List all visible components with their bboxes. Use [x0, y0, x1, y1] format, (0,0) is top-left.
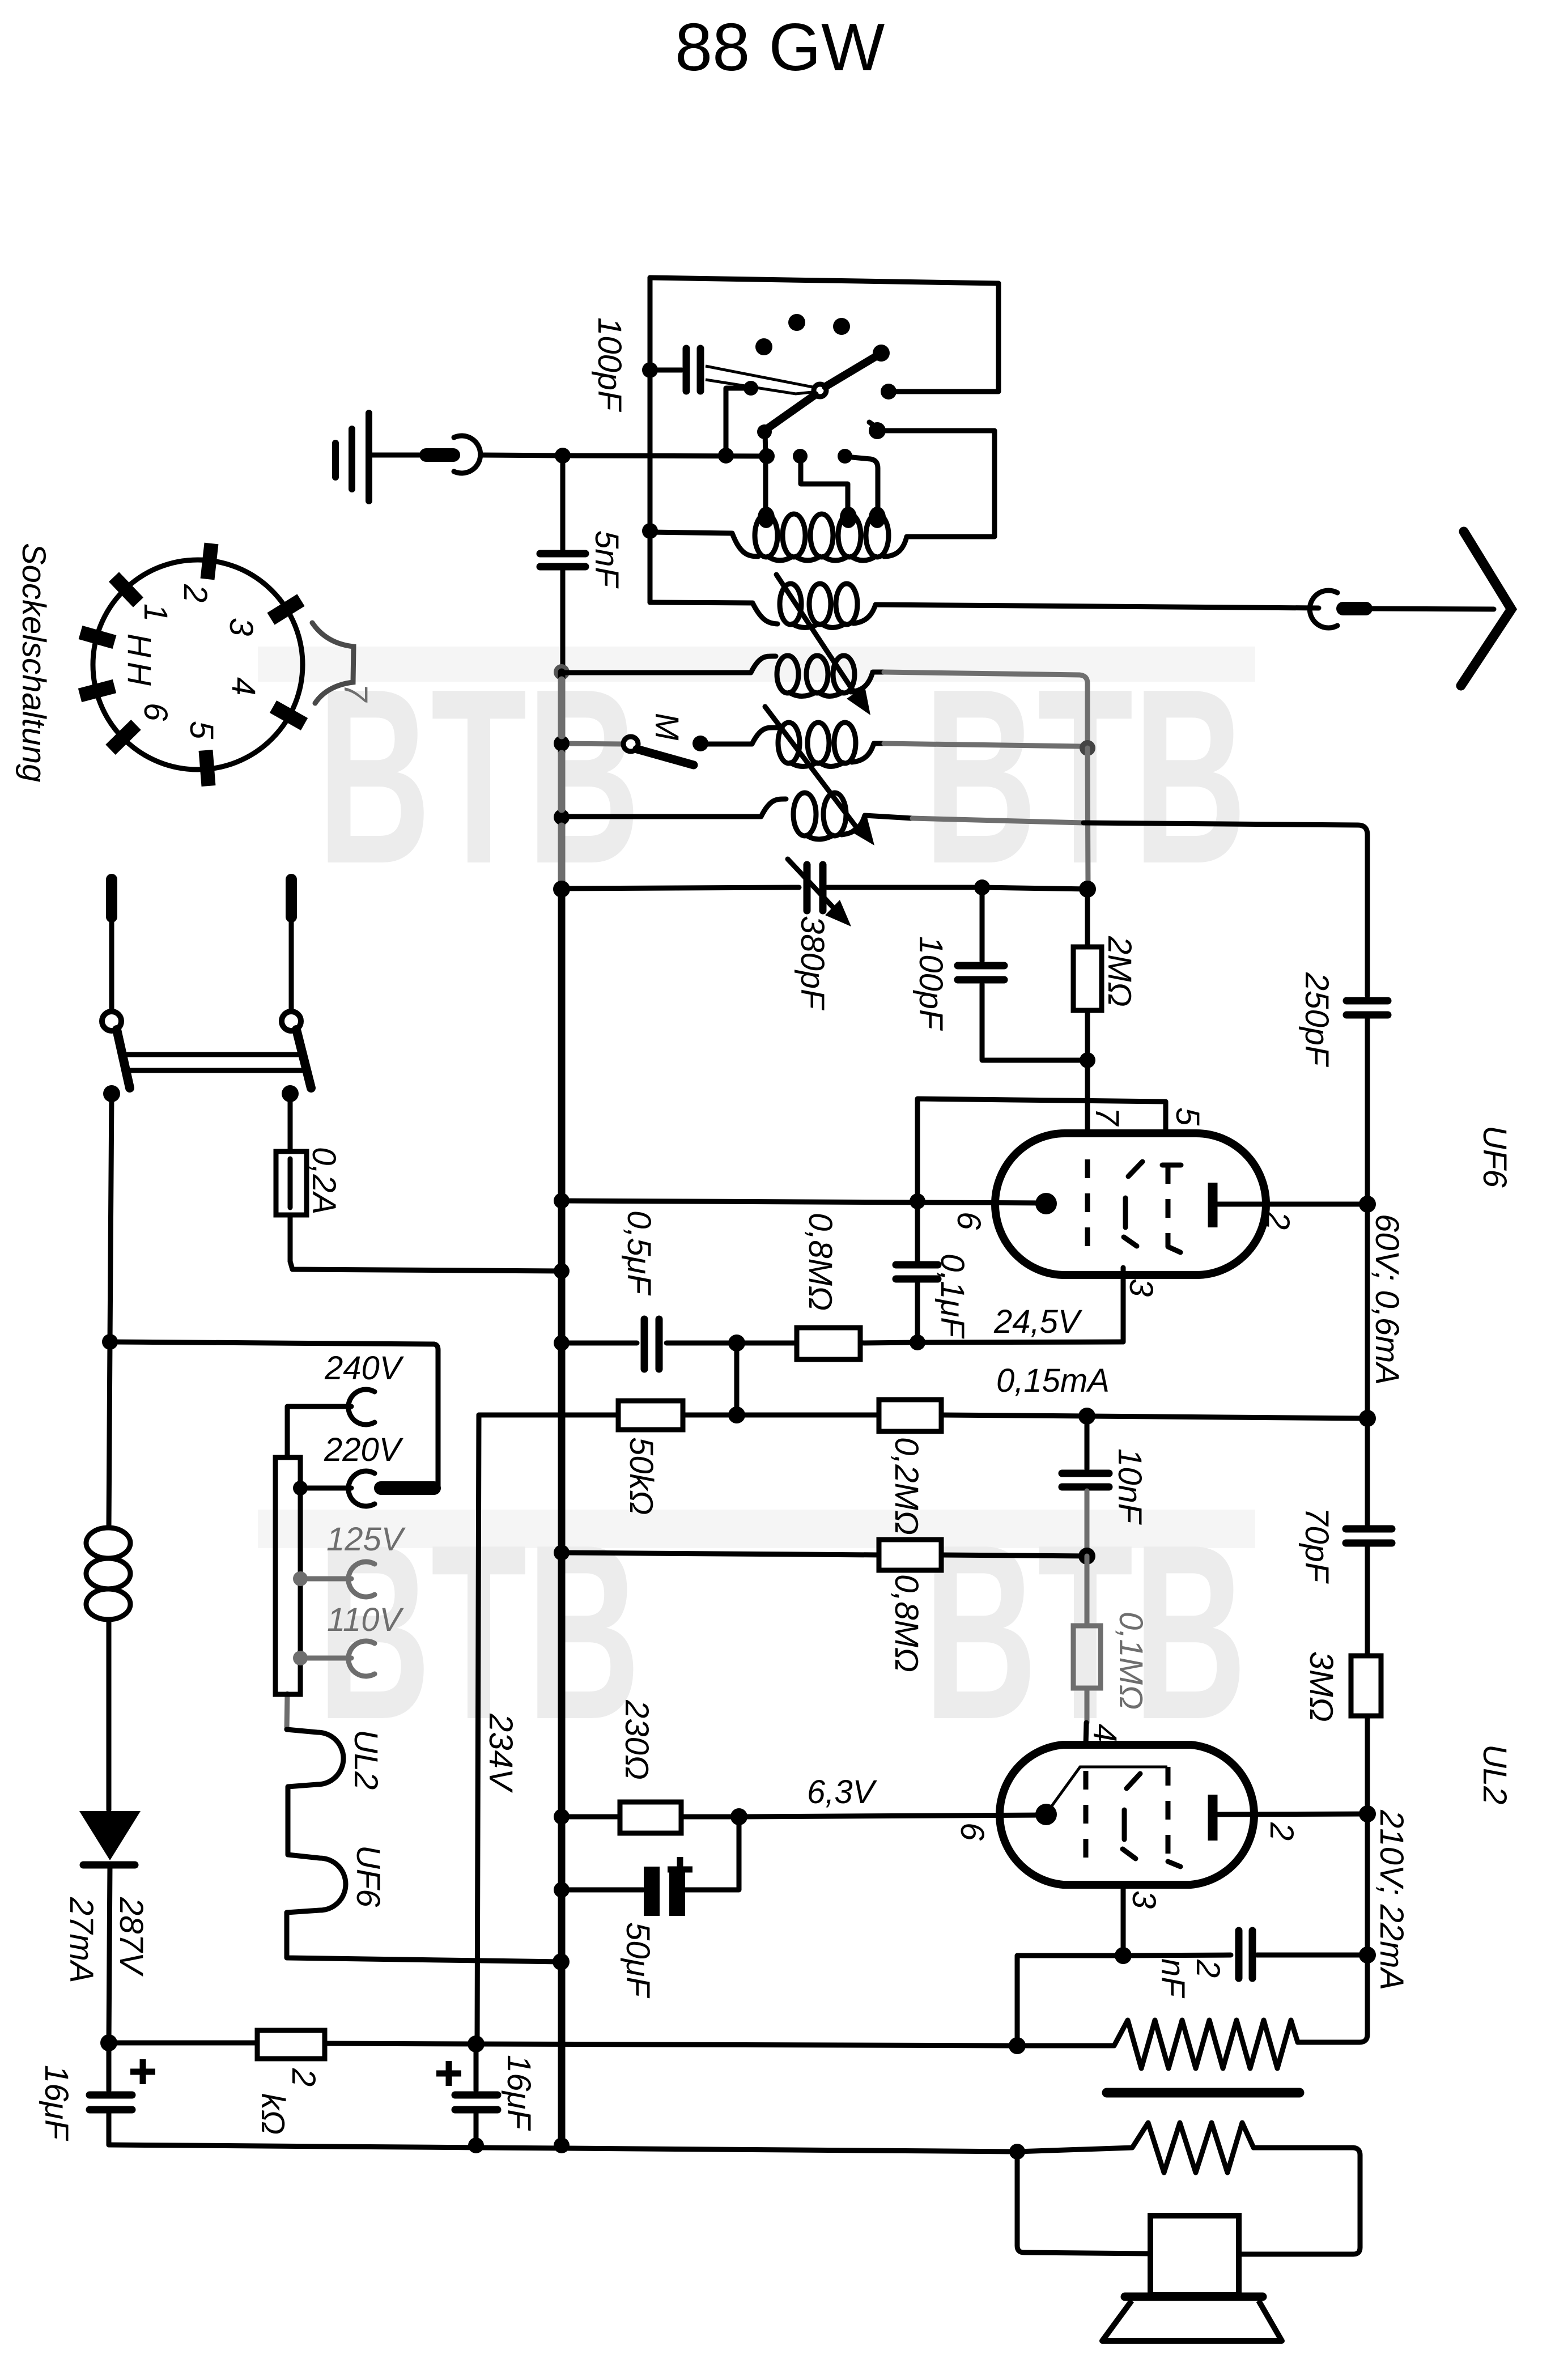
mains switch pole 1 terminal — [106, 879, 117, 917]
svg-text:0,8MΩ: 0,8MΩ — [888, 1574, 925, 1672]
switch M lever — [637, 749, 694, 765]
svg-text:2: 2 — [285, 2068, 322, 2086]
jack 240V with wire to selector top — [349, 1389, 375, 1425]
transformer core — [1107, 2088, 1299, 2098]
filament UL2 — [287, 1729, 343, 1855]
junction UL2 grid — [1078, 1548, 1095, 1565]
svg-text:16μF: 16μF — [500, 2055, 537, 2131]
junction 50k/0,2M — [728, 1406, 745, 1423]
svg-text:10nF: 10nF — [1111, 1448, 1148, 1525]
trunk junction 380pF line — [553, 881, 570, 898]
resistor 50kOhm — [618, 1401, 683, 1430]
coil L3 — [554, 664, 570, 680]
capacitor 100pF (antenna) — [642, 362, 658, 378]
wire L3 to grid bus (gray) — [884, 672, 1087, 748]
capacitor 70pF — [1365, 1418, 1370, 1524]
svg-text:7: 7 — [337, 683, 374, 703]
plus sign 16uF output — [436, 2071, 461, 2077]
trunk junction 230 Ohm rail — [554, 1809, 570, 1825]
svg-text:6: 6 — [137, 703, 174, 721]
resistor 2MOhm — [1085, 889, 1090, 947]
wire line to coil tap 1 — [763, 456, 768, 512]
junction grid bus — [1080, 740, 1095, 756]
socket pin upper-left — [114, 577, 138, 602]
mains switch pole 2 terminal — [286, 879, 297, 917]
junction 234V/16uF — [468, 2035, 485, 2052]
svg-text:0,2MΩ: 0,2MΩ — [888, 1437, 925, 1535]
switch contact E with lead to tap 5 — [838, 449, 852, 464]
UL2 pin 3 lead — [1121, 1885, 1126, 1956]
ground symbol — [366, 413, 372, 501]
coil L1 (antenna coil) — [642, 523, 658, 539]
wire jack to node A — [481, 455, 563, 456]
choke coil in mains — [109, 1342, 110, 1528]
socket pin bottom — [206, 750, 209, 786]
tube UF6 envelope — [995, 1133, 1266, 1275]
trunk junction for M line — [554, 736, 570, 751]
wire mains to 220V plug — [110, 1342, 438, 1488]
switch contact D with lead to tap 4 — [793, 449, 808, 464]
mains switch pole 2 — [282, 1011, 301, 1031]
junction 0,5uF/0,8M — [728, 1334, 745, 1351]
voltage selector bar — [275, 1457, 300, 1694]
svg-text:2: 2 — [1259, 1211, 1296, 1230]
resistor 0,1MOhm (gray) — [1085, 1556, 1090, 1626]
main trunk wire — [558, 672, 566, 2144]
trunk junction 0,5uF rail — [554, 1335, 570, 1351]
svg-text:0,8MΩ: 0,8MΩ — [802, 1213, 839, 1311]
svg-text:kΩ: kΩ — [254, 2093, 291, 2135]
svg-text:220V: 220V — [324, 1431, 404, 1468]
antenna arrow symbol — [1461, 532, 1511, 686]
wire right trunk anode to screen — [1365, 1204, 1370, 1418]
wire arm to line — [765, 432, 766, 456]
wire junction vertical — [734, 1343, 740, 1415]
svg-text:230Ω: 230Ω — [618, 1699, 655, 1780]
bottom return rail — [109, 2145, 1017, 2152]
socket pin lower-left — [80, 686, 114, 695]
wire to right trunk — [1087, 1416, 1367, 1418]
watermark band upper — [258, 647, 1255, 682]
svg-text:7: 7 — [1089, 1107, 1125, 1127]
wire plug to antenna arrow — [1367, 609, 1494, 609]
wire to transformer primary — [1298, 1955, 1367, 2042]
capacitor 2nF — [1123, 1955, 1231, 1956]
antenna jack arc left — [454, 436, 481, 473]
trunk junction fuse — [554, 1263, 570, 1279]
socket pin upper-right — [271, 600, 301, 619]
junction 10nF — [1078, 1408, 1095, 1425]
svg-text:nF: nF — [1154, 1958, 1191, 1999]
svg-text:50μF: 50μF — [619, 1922, 656, 1999]
filament UF6 — [287, 1855, 561, 1962]
capacitor 0,5uF — [562, 1341, 637, 1346]
wire UL2 anode down — [1365, 1814, 1370, 1955]
capacitor 50uF electrolytic — [562, 1888, 643, 1893]
UF6 grid g1 (pin7) dashed — [1085, 1159, 1090, 1249]
wire fuse to trunk — [290, 1261, 562, 1271]
svg-text:100pF: 100pF — [591, 317, 628, 413]
resistor 0,2MOhm — [737, 1413, 879, 1418]
svg-text:27mA: 27mA — [63, 1897, 100, 1983]
plus sign 50uF — [668, 1867, 692, 1873]
switch box left edge wire — [648, 278, 653, 602]
svg-text:2: 2 — [1263, 1822, 1300, 1841]
UF6 pin 3 lead — [1121, 1268, 1126, 1342]
wire L4 to grid bus (gray) — [884, 743, 1081, 746]
antenna plug pin right — [1343, 602, 1366, 615]
svg-text:0,15mA: 0,15mA — [996, 1362, 1110, 1399]
svg-text:4: 4 — [225, 677, 262, 695]
resistor 2kOhm — [109, 2041, 257, 2046]
capacitor 250pF — [1346, 997, 1388, 1005]
transformer primary winding — [1017, 2020, 1298, 2068]
svg-text:0,5μF: 0,5μF — [621, 1210, 657, 1296]
junction pole1/mains — [102, 1334, 118, 1350]
UF6 anode — [1208, 1183, 1218, 1227]
switch M contact — [692, 736, 708, 751]
junction grid node — [1079, 881, 1096, 898]
coil L5 — [554, 809, 570, 825]
antenna jack arc right — [1310, 590, 1337, 628]
wire pole1 down — [110, 1094, 112, 1342]
svg-text:60V; 0,6mA: 60V; 0,6mA — [1369, 1214, 1405, 1385]
svg-text:2: 2 — [177, 584, 214, 602]
resistor 0,8MOhm (grid leak) — [737, 1341, 797, 1346]
svg-text:BTB: BTB — [317, 637, 640, 916]
mains switch pole 1 — [102, 1011, 121, 1031]
UL2 middle electrode dashed — [1127, 1774, 1140, 1788]
wiper feed lines — [706, 366, 813, 387]
svg-text:234V: 234V — [482, 1713, 519, 1793]
svg-text:2MΩ: 2MΩ — [1101, 936, 1138, 1007]
switch arm lower — [767, 395, 815, 429]
tap 125V (gray) — [293, 1571, 308, 1586]
junction dots on antenna line — [718, 448, 734, 464]
coupling arrow L4-L5 — [765, 707, 863, 835]
wire grid bus down (gray) — [1087, 748, 1088, 887]
transformer secondary winding — [1017, 2123, 1254, 2173]
wire secondary to speaker — [1240, 2148, 1360, 2254]
svg-text:3: 3 — [223, 618, 260, 636]
svg-text:3: 3 — [1123, 1278, 1159, 1297]
antenna plug pin left — [426, 448, 453, 462]
junction UF6 anode — [1359, 1196, 1376, 1213]
UL2 grid g1 (pin4) dashed — [1084, 1771, 1089, 1864]
resistor 0,8MOhm (lower) — [562, 1553, 879, 1555]
tap 110V (gray) — [293, 1651, 308, 1665]
capacitor 100pF (grid) — [980, 887, 985, 961]
switch pivot — [814, 384, 826, 397]
svg-text:HH: HH — [121, 634, 158, 690]
UF6 cathode — [1035, 1193, 1057, 1214]
wire UF6 grid box — [917, 1099, 1166, 1201]
socket pin bottom-left — [111, 725, 136, 750]
wire UL2 cathode to primary rail — [1115, 1947, 1132, 1964]
wire 50k rail — [479, 1413, 618, 1418]
capacitor 0,1uF — [915, 1201, 920, 1261]
coil L4 — [707, 728, 777, 744]
socket pin left — [80, 632, 114, 642]
svg-text:6: 6 — [950, 1212, 987, 1230]
svg-text:6,3V: 6,3V — [807, 1774, 878, 1810]
switch floating contact 1 — [788, 314, 805, 331]
capacitor 16uF (output) — [474, 2044, 479, 2090]
capacitor 16uF (input) — [107, 2043, 112, 2090]
junction 230/50uF — [730, 1808, 747, 1825]
socket speaker symbol — [312, 623, 354, 703]
coupling arrow L2-L3 — [776, 575, 859, 700]
svg-text:5: 5 — [183, 721, 220, 739]
svg-text:70pF: 70pF — [1298, 1507, 1335, 1584]
svg-text:16μF: 16μF — [38, 2065, 75, 2141]
wire ground to plug — [372, 453, 424, 458]
wire 6,3V heater line — [739, 1815, 1046, 1817]
resistor 230 Ohm — [562, 1814, 620, 1820]
wire 380pF line — [562, 887, 799, 889]
svg-text:UL2: UL2 — [1476, 1744, 1513, 1804]
switch contact A — [881, 384, 897, 399]
svg-text:88 GW: 88 GW — [675, 10, 885, 85]
svg-text:24,5V: 24,5V — [993, 1303, 1083, 1340]
coil L1 tap 4 — [840, 507, 857, 528]
svg-text:UF6: UF6 — [1476, 1125, 1513, 1188]
svg-text:0,1μF: 0,1μF — [934, 1253, 971, 1339]
svg-text:5nF: 5nF — [588, 530, 625, 589]
svg-text:0,1MΩ: 0,1MΩ — [1112, 1612, 1149, 1710]
trunk junction 0,8M rail — [554, 1545, 570, 1561]
node A junction — [555, 448, 571, 464]
junction grid lower — [1080, 1052, 1095, 1068]
svg-text:125V: 125V — [326, 1521, 406, 1558]
switch box right edge wire — [897, 283, 999, 392]
junction rectifier output — [100, 2034, 117, 2051]
switch floating contact 3 — [755, 338, 772, 355]
trunk junction heater — [553, 1953, 570, 1970]
svg-text:6: 6 — [954, 1822, 991, 1841]
plus sign 16uF input — [130, 2069, 155, 2075]
jack 220V — [349, 1471, 375, 1506]
tube UL2 envelope — [1000, 1745, 1254, 1885]
UF6 middle electrode dashed — [1128, 1162, 1142, 1176]
wire node A to switch — [563, 456, 767, 456]
resistor 3MOhm — [1351, 1656, 1381, 1716]
trunk junction 50uF — [554, 1882, 570, 1898]
heater chain from selector — [287, 1694, 287, 1729]
svg-text:0,2A: 0,2A — [305, 1147, 342, 1214]
wire L5 to 250pF (gray then black) — [912, 818, 1084, 823]
junction 100pF2 — [974, 879, 990, 895]
capacitor 10nF — [1085, 1416, 1090, 1469]
switch M terminal — [562, 743, 623, 744]
svg-text:240V: 240V — [324, 1350, 405, 1387]
watermark band lower — [258, 1510, 1255, 1548]
svg-text:110V: 110V — [327, 1601, 404, 1638]
switch contact C with lead — [743, 381, 758, 396]
capacitor 5nF — [560, 456, 566, 550]
junction 2nF right — [1359, 1946, 1376, 1963]
svg-text:100pF: 100pF — [912, 936, 949, 1031]
socket pin lower-right — [273, 707, 304, 724]
switch floating contact 2 — [833, 318, 850, 335]
svg-text:287V: 287V — [113, 1897, 150, 1977]
wire speaker left lead — [1017, 2152, 1150, 2254]
switch box top edge wire — [650, 278, 999, 283]
svg-text:3: 3 — [1125, 1890, 1162, 1909]
junction UL2 anode — [1359, 1805, 1376, 1822]
svg-text:5: 5 — [1169, 1107, 1206, 1126]
svg-text:2: 2 — [1189, 1959, 1226, 1978]
UL2 anode — [1208, 1795, 1218, 1841]
junction screen rail — [1359, 1410, 1376, 1427]
fuse 0,2A — [288, 1094, 293, 1261]
svg-text:3MΩ: 3MΩ — [1303, 1651, 1340, 1722]
UF6 grid g3 (pin5) dashed — [1162, 1163, 1181, 1168]
wire UF6 cathode to trunk — [562, 1201, 1046, 1203]
UL2 internal beam wire — [1047, 1767, 1167, 1812]
UL2 cathode — [1035, 1804, 1057, 1825]
svg-text:UL2: UL2 — [347, 1729, 384, 1790]
tap wire 220V — [300, 1486, 351, 1491]
svg-text:250pF: 250pF — [1298, 972, 1335, 1068]
tube socket circle — [93, 560, 303, 770]
wire to primary — [476, 2044, 1017, 2046]
svg-text:1: 1 — [137, 603, 174, 622]
svg-text:M: M — [648, 713, 685, 741]
coil L1 tap 5 — [869, 507, 886, 528]
svg-text:380pF: 380pF — [794, 916, 831, 1011]
switch arm upper — [826, 355, 878, 386]
wire 100pF2 line — [982, 887, 1087, 889]
svg-text:50kΩ: 50kΩ — [623, 1437, 660, 1515]
loudspeaker — [1150, 2216, 1239, 2295]
svg-text:210V; 22mA: 210V; 22mA — [1373, 1809, 1410, 1990]
switch link bar — [124, 1052, 302, 1057]
switch contact B with lead — [869, 422, 886, 439]
wire 234V line — [477, 1415, 479, 2043]
capacitor 380pF variable — [804, 865, 811, 911]
socket pin top — [207, 543, 211, 579]
coil L2 with lead from box corner — [650, 602, 777, 624]
UL2 grid g3 dashed — [1166, 1767, 1171, 1861]
mains plug pin 220V — [381, 1481, 434, 1495]
coil L1 tap 1 — [758, 507, 775, 528]
svg-text:4: 4 — [1086, 1724, 1123, 1742]
svg-text:UF6: UF6 — [350, 1845, 386, 1907]
svg-text:Sockelschaltung: Sockelschaltung — [15, 543, 52, 782]
rectifier diode — [79, 1811, 141, 1860]
wire grid to UF6 pin7 — [1085, 1060, 1090, 1133]
